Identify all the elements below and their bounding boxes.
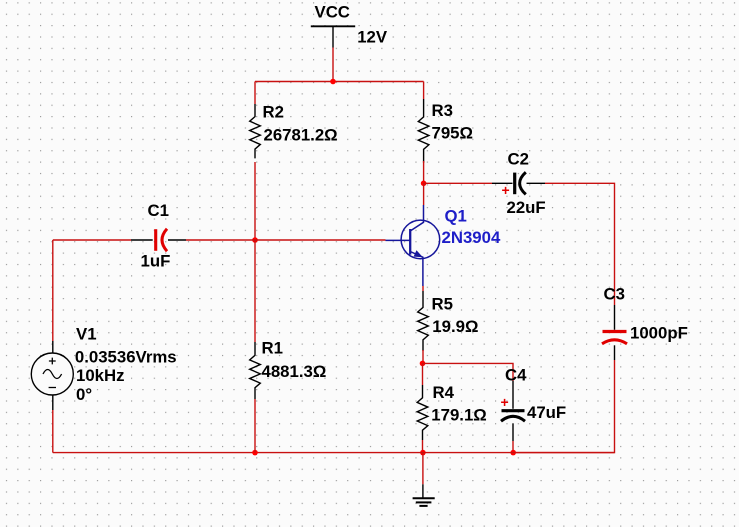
wire top rail — [255, 81, 424, 83]
node emitter junction — [420, 361, 426, 367]
wire C4 bottom to bottom rail — [512, 441, 514, 453]
capacitor C4 — [501, 366, 567, 442]
svg-text:0.03536Vrms: 0.03536Vrms — [75, 348, 177, 367]
svg-text:R3: R3 — [432, 101, 453, 120]
wire R5 bottom to emitter node — [422, 350, 424, 363]
resistor R3 — [418, 99, 473, 163]
svg-text:2N3904: 2N3904 — [442, 228, 501, 247]
node ground junction — [420, 450, 426, 456]
wire R3 bottom to collector node — [423, 161, 425, 183]
svg-text:C3: C3 — [604, 285, 625, 304]
resistor R2 — [250, 103, 338, 159]
wire R2 top lead — [254, 82, 256, 105]
wire left rail top to C1 — [53, 239, 131, 241]
capacitor C3 — [602, 285, 688, 361]
capacitor C2 — [492, 150, 546, 218]
svg-text:R5: R5 — [432, 294, 453, 313]
resistor R5 — [418, 291, 479, 351]
svg-text:19.9Ω: 19.9Ω — [432, 317, 478, 336]
svg-text:0°: 0° — [76, 385, 92, 404]
wire R1 bottom to bottom rail — [254, 399, 256, 453]
source V1 — [31, 325, 176, 411]
svg-text:10kHz: 10kHz — [76, 366, 125, 385]
svg-text:795Ω: 795Ω — [432, 124, 473, 143]
svg-text:R4: R4 — [433, 383, 455, 402]
wire left rail — [52, 240, 54, 341]
wire V1 bottom to bottom rail — [52, 410, 54, 453]
capacitor C1 — [131, 201, 186, 271]
transistor Q1 — [386, 205, 501, 286]
svg-text:4881.3Ω: 4881.3Ω — [262, 362, 327, 381]
ground — [413, 484, 435, 506]
wire base node to Q1 base — [255, 239, 386, 241]
wire R2 bottom to base node — [254, 162, 256, 240]
node collector junction — [421, 181, 427, 187]
svg-text:1000pF: 1000pF — [630, 323, 688, 342]
wire VCC stem — [332, 48, 334, 82]
node VCC junction — [330, 79, 336, 85]
resistor R1 — [250, 339, 327, 399]
svg-text:V1: V1 — [76, 325, 97, 344]
wire collector node to Q1 collector — [423, 183, 425, 205]
wire ground stem — [422, 453, 424, 485]
power VCC — [311, 3, 388, 48]
svg-text:47uF: 47uF — [527, 403, 566, 422]
wire emitter node to C4 branch — [423, 363, 514, 381]
wire R4 bottom to ground node — [422, 440, 424, 453]
wire C1 to base node — [186, 239, 255, 241]
svg-text:179.1Ω: 179.1Ω — [431, 406, 486, 425]
wire emitter node to R4 — [422, 363, 424, 385]
svg-text:VCC: VCC — [315, 3, 350, 22]
resistor R4 — [417, 383, 487, 440]
svg-text:12V: 12V — [357, 27, 388, 46]
wire Q1 emitter to R5 — [422, 286, 424, 291]
wire R3 top lead — [423, 82, 425, 100]
svg-text:22uF: 22uF — [507, 198, 546, 217]
wire C2 to right rail corner — [545, 183, 615, 305]
svg-text:C2: C2 — [508, 150, 529, 169]
wire base node to R1 — [254, 240, 256, 342]
svg-text:C4: C4 — [505, 366, 527, 385]
svg-text:+: + — [502, 182, 510, 198]
wire bottom rail — [53, 452, 615, 454]
svg-text:C1: C1 — [148, 201, 169, 220]
svg-text:Q1: Q1 — [445, 207, 467, 226]
svg-text:26781.2Ω: 26781.2Ω — [264, 126, 338, 145]
node base junction — [252, 237, 258, 243]
svg-text:1uF: 1uF — [141, 252, 171, 271]
wire C3 to bottom rail — [513, 360, 614, 453]
svg-text:R1: R1 — [262, 339, 283, 358]
wire collector node to C2 — [424, 182, 492, 184]
node C4 bottom junction — [510, 450, 516, 456]
svg-text:R2: R2 — [263, 103, 284, 122]
node R1 bottom junction — [252, 450, 258, 456]
svg-text:+: + — [501, 394, 509, 410]
